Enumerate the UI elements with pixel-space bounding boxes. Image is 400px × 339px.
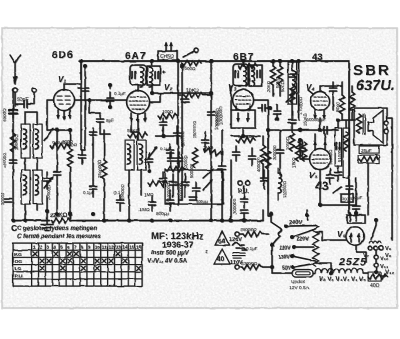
switch mains lever	[271, 216, 282, 240]
wire gang2 verticals	[178, 61, 182, 205]
coil L-osc1	[125, 140, 134, 170]
wire 392 to v12	[391, 215, 393, 240]
terminal ant B	[32, 88, 36, 92]
wire V3 base	[236, 106, 250, 136]
capacitor C-v1k	[79, 150, 86, 164]
coil rect 336	[335, 128, 342, 166]
resistor R-342	[335, 86, 345, 120]
node osc mid	[161, 134, 165, 138]
capacitor C-326t	[324, 127, 327, 134]
tube V4	[308, 86, 330, 111]
capacitor C-148	[146, 153, 153, 173]
wire T1 to V2	[138, 85, 152, 93]
wire V4 bottom	[319, 118, 321, 130]
resistor R-drop mains	[313, 225, 319, 266]
jack symbol	[232, 243, 246, 251]
capacitor C-tone2	[182, 174, 189, 197]
voltage tap 240	[284, 220, 316, 228]
switch top right	[371, 218, 378, 239]
node junction 338-120	[336, 118, 340, 122]
wire 20k top	[273, 61, 280, 66]
wire bottom ground bus left	[13, 220, 263, 222]
voltage tap 50	[282, 264, 311, 272]
wire 93 up	[92, 128, 94, 160]
wire T3 right vertical	[298, 61, 300, 120]
node junction 211-93	[209, 91, 213, 95]
resistor R-2M diag	[203, 146, 223, 157]
resistor R-20Ka	[266, 66, 276, 96]
coil L-PUr	[278, 168, 281, 200]
wire coil bottoms	[25, 204, 37, 221]
selector contacts	[368, 241, 383, 250]
wire v10-11	[375, 250, 377, 272]
node 170	[168, 219, 172, 223]
tube V2	[127, 91, 150, 114]
rect base V6	[347, 212, 365, 224]
IF transformer T2 left	[233, 64, 248, 86]
capacitor C-205	[202, 132, 209, 151]
node v12	[374, 270, 378, 274]
capacitor C-v5	[327, 169, 334, 184]
node junction 152-93	[150, 91, 154, 95]
node mains top	[269, 212, 273, 216]
node junction 320-205	[318, 203, 322, 207]
node V1 top	[79, 59, 83, 63]
wire r600	[103, 130, 105, 221]
node 211	[209, 59, 213, 63]
wire drop out right	[316, 232, 347, 240]
IF transformer T1 right	[147, 66, 165, 87]
node d1	[150, 219, 154, 223]
node gang2 top	[176, 59, 180, 63]
coil L2 band	[33, 124, 42, 158]
coil L3 band	[21, 170, 30, 204]
node vlink1	[298, 128, 302, 132]
resistor R-50K	[127, 128, 147, 138]
wire ant leads	[15, 92, 34, 106]
capacitor C-93	[90, 180, 97, 197]
capacitor C-333	[330, 82, 337, 97]
resistor R-osc low	[165, 166, 184, 171]
capacitor C-left-bot	[5, 199, 12, 202]
terminal ant A	[13, 88, 17, 92]
capacitor C-T3 low	[274, 104, 281, 121]
anode arrows V5	[313, 134, 327, 150]
wire T3 top	[292, 61, 299, 62]
wire V2 plate right	[150, 93, 212, 102]
capacitor C-tone3	[190, 197, 209, 204]
node junction 356-213	[354, 211, 358, 215]
wire v2 vertical x211	[210, 61, 212, 130]
wire right B+ drop	[348, 120, 350, 213]
terminal mains2	[235, 261, 272, 270]
measurement table	[13, 243, 142, 286]
wire V5 bottom	[319, 170, 321, 206]
terminal mains1	[235, 227, 268, 237]
capacitor C-tone1	[170, 174, 177, 197]
voltage tap 220	[290, 229, 316, 243]
wire mid v	[221, 130, 223, 160]
node 20kb	[278, 59, 282, 63]
resistor R-det1	[236, 134, 255, 143]
capacitor C-osc pair2	[176, 152, 189, 170]
capacitor C-211	[208, 112, 215, 115]
resistor R-13	[10, 133, 15, 152]
capacitor C-292b	[289, 100, 296, 131]
electrolytic box	[358, 155, 379, 163]
trimmer cap gang2	[181, 99, 189, 102]
wire 6A7 bus drop	[151, 61, 153, 65]
cathode arrows V4	[313, 110, 326, 120]
node d2	[102, 219, 106, 223]
capacitor C-264	[261, 170, 268, 189]
resistor R-304	[301, 142, 306, 161]
node coil gnd	[23, 219, 27, 223]
cathode arrows V1	[56, 110, 72, 121]
wire drop bottom	[316, 263, 332, 273]
resistor R-100	[158, 109, 177, 119]
resistor R-268	[265, 150, 270, 169]
voltage tap 130	[278, 254, 316, 261]
wire 6B7 drop	[242, 61, 244, 64]
wire V4 plate top	[320, 85, 333, 87]
resistor R-297	[291, 142, 301, 168]
capacitor C-263	[258, 105, 272, 112]
wire osc mid link	[155, 128, 177, 136]
heater chain coil	[315, 269, 363, 274]
terminal PU1	[238, 181, 242, 185]
wire rects top	[338, 120, 355, 128]
capacitor C-ant2	[9, 106, 17, 120]
output transformer winding	[356, 114, 365, 134]
wire v4 down link	[268, 129, 338, 131]
resistor R-2500	[182, 60, 201, 71]
node junction 243-136	[241, 134, 245, 138]
speaker cone	[368, 110, 383, 143]
ground left	[41, 209, 53, 231]
vertical wire x231	[230, 86, 232, 110]
wire 93	[92, 160, 94, 180]
wire osc bottoms	[129, 170, 141, 221]
antenna	[10, 55, 20, 84]
resistor R-600 rot	[97, 159, 107, 179]
coil rect 344	[337, 128, 350, 178]
wire bottom bus drop	[263, 130, 271, 221]
capacitor 50pF	[15, 97, 29, 108]
tube V5	[310, 149, 331, 170]
capacitor C-det2	[249, 148, 256, 165]
wire top B+ bus	[79, 61, 349, 120]
node spare 307	[305, 210, 309, 220]
box 30000	[341, 194, 354, 202]
wire V2 bottom	[131, 114, 138, 141]
wire 8pF link	[89, 100, 110, 134]
label 25uF	[359, 146, 379, 153]
node drop bottom	[329, 271, 333, 275]
wire V1 anode right	[75, 99, 127, 101]
wire 10K line	[178, 94, 211, 96]
node bus 81b	[83, 64, 87, 68]
node vlink2	[318, 128, 322, 132]
antenna arrowhead	[13, 76, 18, 85]
node junction 268-130	[266, 128, 270, 132]
capacitor C-173	[167, 190, 174, 211]
resistor R-10K	[184, 88, 203, 98]
wire v4 net	[333, 82, 342, 110]
voltage tap 110a	[279, 245, 314, 252]
wire rv1k	[69, 130, 71, 221]
switch osc wiper	[148, 148, 156, 158]
node junction 320-130	[318, 128, 322, 132]
capacitor C-302	[299, 140, 306, 157]
wire 268 up	[267, 130, 269, 194]
tube V6	[346, 227, 364, 245]
box tone switch	[165, 170, 223, 204]
wire V3 plate	[254, 100, 269, 130]
capacitor C-58	[54, 167, 61, 214]
resistor R-292c	[289, 132, 294, 151]
coil L-292	[292, 61, 295, 100]
node junction 57-214	[55, 212, 59, 216]
switch wiper band1	[44, 130, 52, 140]
switch wiper band2	[44, 178, 52, 188]
switch Q top	[183, 48, 198, 57]
node junction 70-214	[68, 212, 72, 216]
wire coil tops	[25, 112, 37, 170]
coil L1 band	[21, 124, 30, 158]
coupling box T3	[288, 62, 297, 104]
node junction 110-85	[108, 83, 112, 87]
junction dots power	[270, 265, 274, 269]
IF transformer T1 left	[130, 65, 146, 87]
switch S-low	[333, 187, 341, 193]
node junction 300-140	[298, 138, 302, 142]
capacitor C-338b	[335, 166, 342, 181]
node 6B7 drop	[241, 59, 245, 63]
capacitor C-164b	[160, 172, 167, 187]
resistor R-20Kb	[277, 66, 285, 96]
capacitor C-01 grid	[107, 91, 126, 109]
wire V1 plate to top	[64, 61, 81, 84]
capacitor C-det1	[233, 146, 240, 161]
coil L4 band	[33, 170, 42, 204]
node det	[229, 219, 233, 223]
triangle 40	[214, 249, 230, 264]
node T3b	[297, 59, 301, 63]
resistor 40ohm	[368, 272, 387, 289]
capacitor C-osc pair1	[168, 152, 175, 167]
wire rect to taps	[356, 245, 366, 262]
wire heater ends	[313, 273, 385, 276]
node mains mid	[270, 243, 274, 247]
capacitor C-356m	[346, 178, 353, 195]
resistor R-bus 228K	[50, 213, 77, 223]
capacitor C-354	[352, 195, 363, 214]
wire gnd stub	[46, 196, 48, 221]
speaker box	[354, 108, 387, 145]
capacitor C-g2	[167, 144, 174, 159]
wire 222 low	[221, 177, 223, 221]
speaker terminals	[384, 121, 388, 133]
resistor R-v1k	[66, 142, 78, 167]
wire v1 mid	[47, 130, 70, 167]
node 222	[220, 219, 224, 223]
node 89	[87, 98, 91, 102]
wire det verticals	[231, 136, 263, 221]
node 6A7 drop	[150, 59, 154, 63]
switch tone	[203, 181, 211, 190]
wire speaker feed	[349, 110, 392, 215]
resistor R-150h	[148, 180, 167, 185]
wire grid link	[109, 85, 111, 88]
capacitor C-280	[277, 140, 284, 161]
wire low right	[320, 200, 356, 205]
wire gang1 verticals	[81, 61, 85, 150]
capacitor C-v2k	[160, 118, 167, 131]
resistor R-05M	[50, 140, 69, 149]
coil L-osc2	[137, 140, 146, 170]
resistor R-det2 rot	[256, 145, 266, 172]
terminal V10	[374, 255, 389, 262]
diode box V3	[231, 110, 255, 128]
pilot lamp Undox	[292, 270, 313, 278]
switch mid	[203, 170, 212, 178]
capacitor C-222	[219, 160, 226, 177]
capacitor C-118	[114, 190, 124, 211]
wire V5 grid	[300, 140, 310, 159]
capacitor C-152	[149, 196, 156, 211]
capacitor C-pu1	[241, 186, 248, 208]
IF transformer T2 right	[249, 65, 262, 86]
wire V1 grid	[47, 100, 54, 130]
node left bus	[11, 219, 15, 223]
triangle 64	[215, 231, 229, 245]
node v1 mid	[55, 128, 59, 132]
capacitor C-47b	[44, 172, 51, 189]
terminal PU2	[245, 181, 249, 185]
wire left column	[12, 92, 14, 221]
choke box CH5	[158, 42, 177, 61]
node T3	[290, 59, 294, 63]
wire v6 top	[355, 213, 357, 215]
wire T3 diag	[286, 92, 296, 102]
capacitor C-13b	[10, 160, 17, 163]
node junction 93-214	[91, 212, 95, 216]
capacitor C-196	[193, 182, 200, 199]
resistor R-60K	[238, 63, 257, 68]
trimmer cap gang1	[78, 88, 89, 91]
node rv1k	[68, 128, 72, 132]
capacitor C-pu2	[241, 210, 248, 223]
cap trimmer sym	[233, 253, 245, 258]
node osc gnd	[127, 219, 131, 223]
wire gang2 bottom trim	[178, 199, 182, 201]
node bus 182b	[180, 64, 184, 68]
wire spk bottom	[356, 163, 368, 215]
node 211 low	[209, 219, 213, 223]
wire lamp feed	[272, 267, 292, 273]
capacitor C-8pF	[97, 113, 115, 128]
tube V3	[233, 90, 254, 111]
tube V1	[54, 84, 75, 111]
node 20ka	[271, 59, 275, 63]
capacitor C-osc mid	[174, 126, 186, 146]
wire 280	[279, 130, 281, 175]
wire gang1 bottom trim	[81, 149, 85, 151]
wire mid vertical 211 low	[210, 130, 212, 221]
capacitor C-90b	[90, 132, 97, 135]
terminal V11	[374, 263, 389, 270]
resistor R-196v	[192, 148, 197, 167]
cathode arrows V2	[129, 113, 147, 124]
resistor R-352	[349, 86, 354, 120]
wire mains v	[272, 240, 276, 267]
